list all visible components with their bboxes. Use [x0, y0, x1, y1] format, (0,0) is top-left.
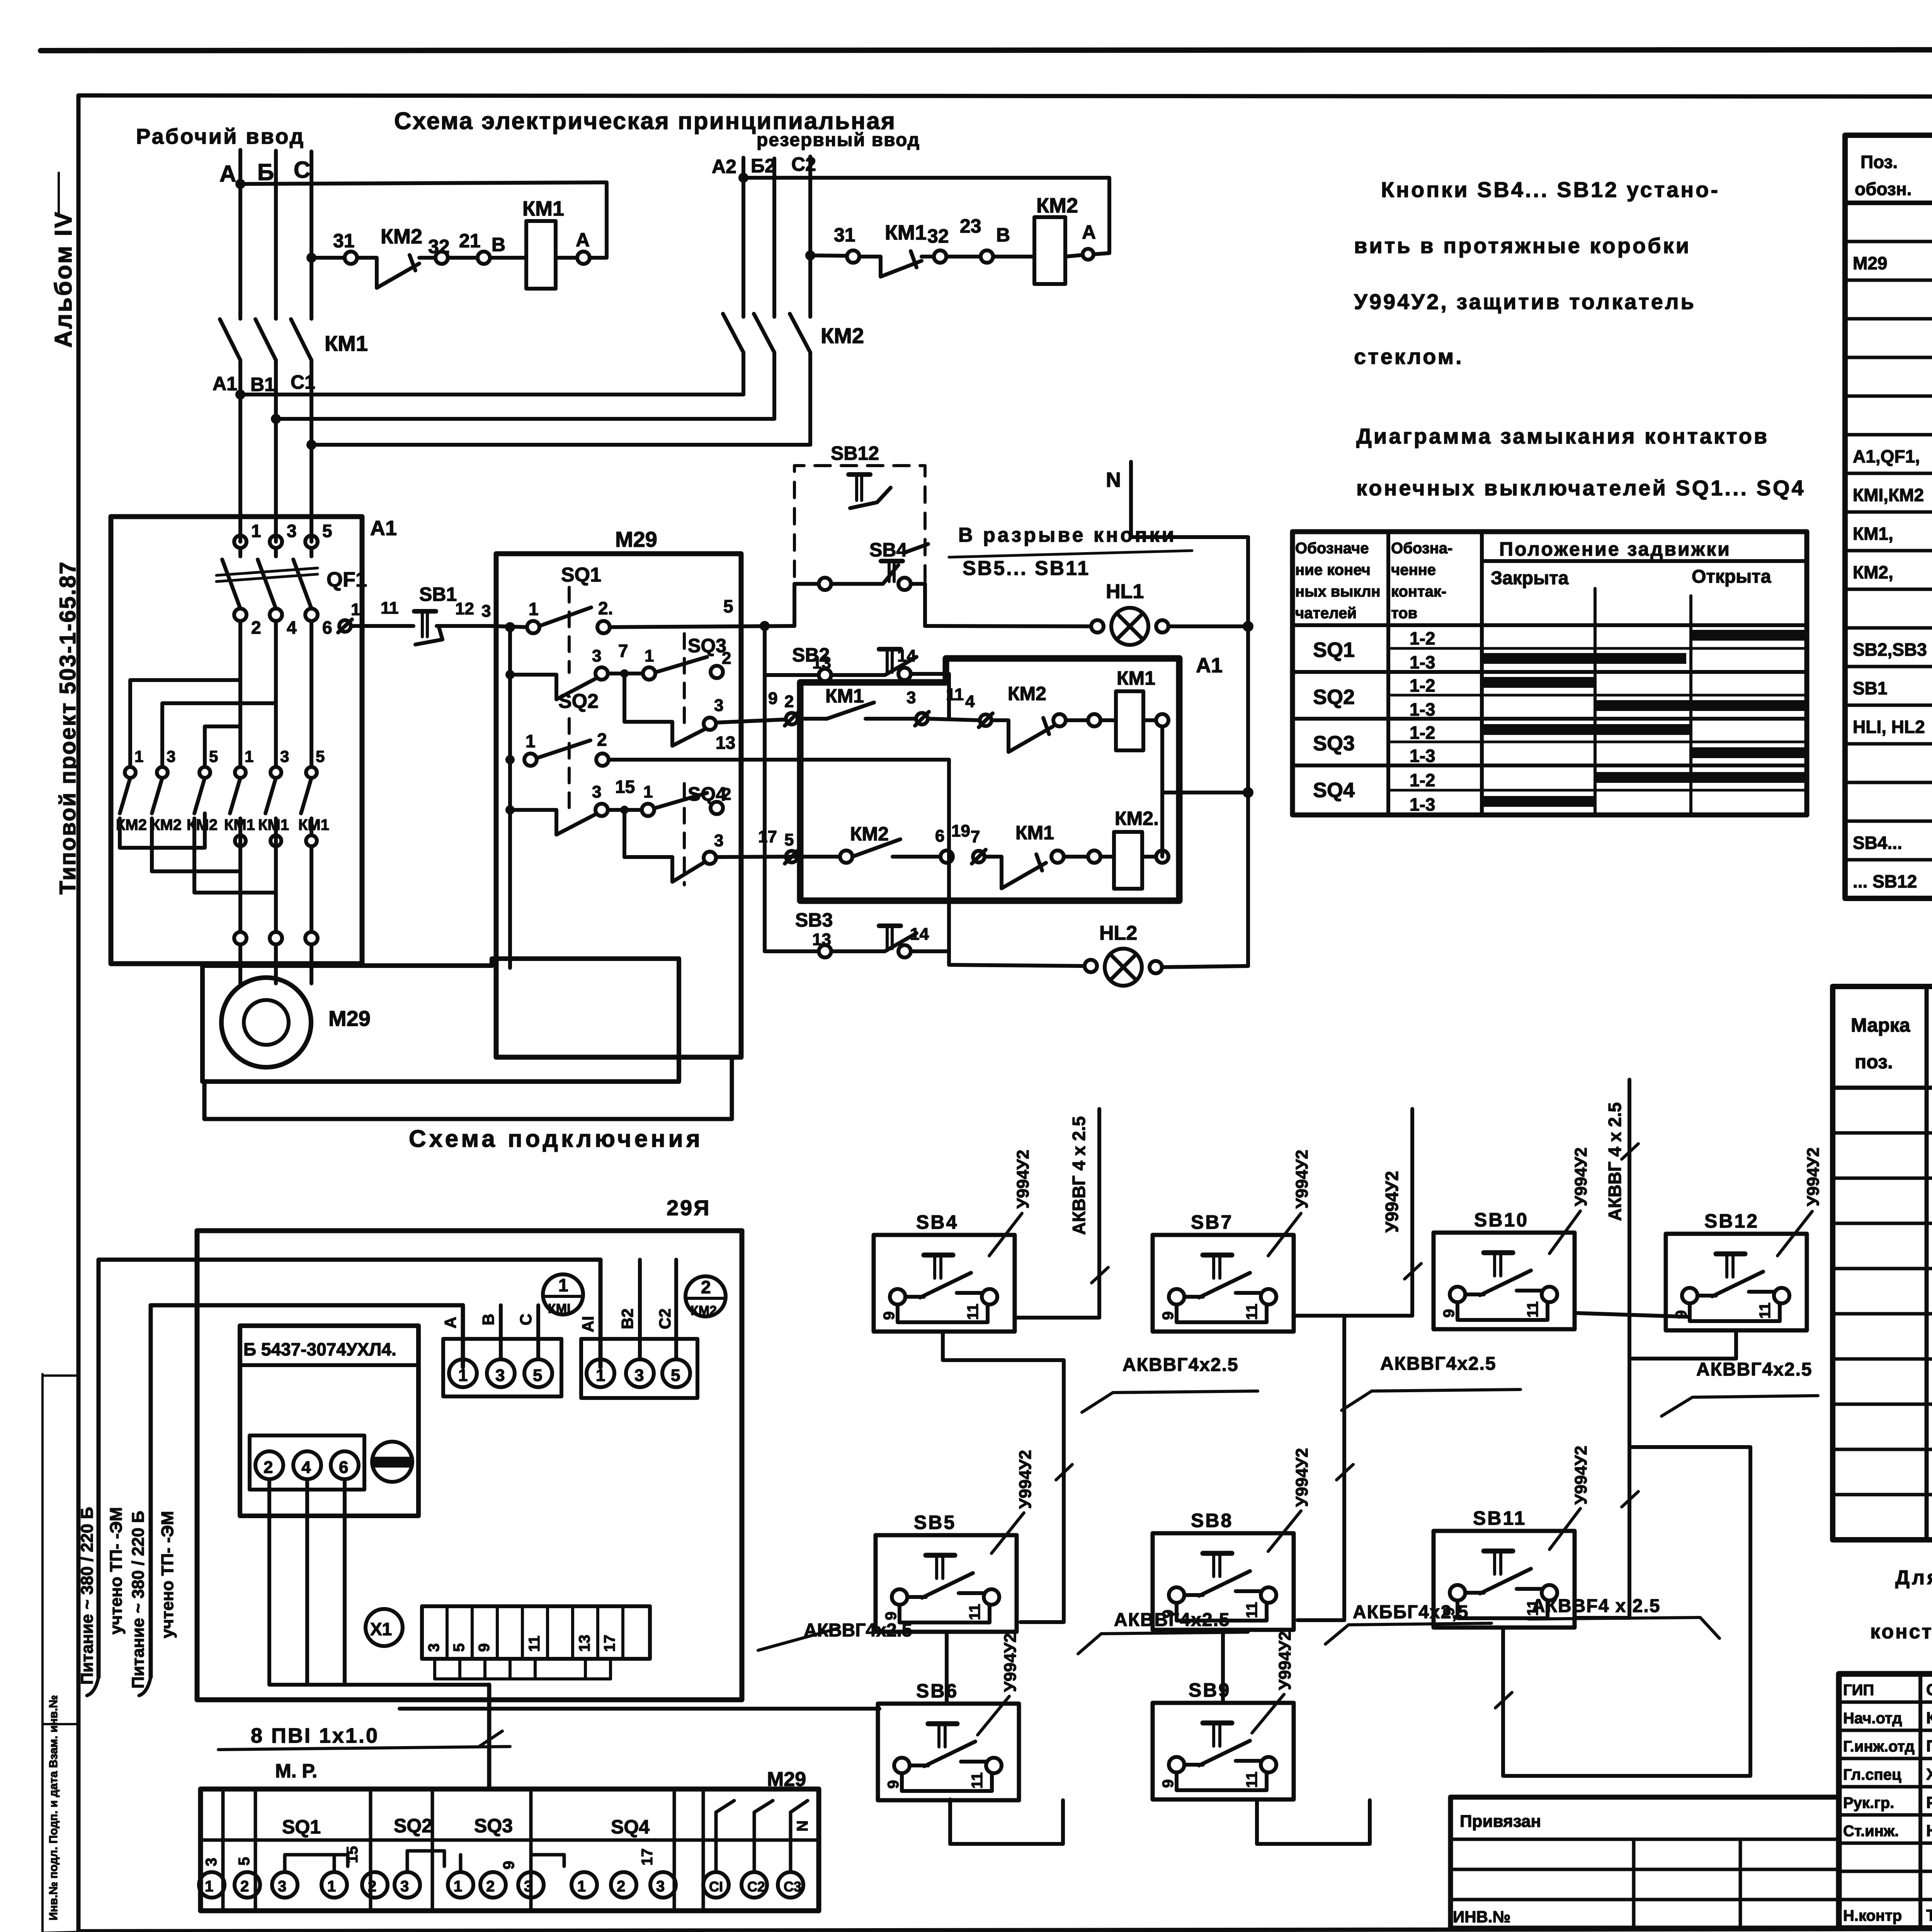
svg-text:3: 3	[481, 602, 491, 621]
title block outline	[1839, 1674, 1932, 1928]
svg-text:Типовой проект 503-1-65.87: Типовой проект 503-1-65.87	[55, 561, 80, 895]
svg-text:SB8: SB8	[1191, 1510, 1233, 1531]
svg-text:Ст.инж.: Ст.инж.	[1843, 1823, 1899, 1840]
row 14	[1845, 742, 1932, 746]
closure bar SQ1 1-3	[1484, 653, 1686, 664]
svg-text:2: 2	[264, 1458, 273, 1477]
wire	[448, 256, 478, 260]
svg-text:В: В	[492, 234, 505, 255]
svg-text:У994У2: У994У2	[1382, 1171, 1402, 1233]
svg-text:11: 11	[381, 599, 399, 617]
cable SB11 down	[1503, 1447, 1750, 1776]
svg-text:3: 3	[425, 1643, 442, 1652]
terminal 32 reserve	[934, 250, 946, 263]
cable SB7-SB8	[1298, 1316, 1344, 1620]
svg-text:Привязан: Привязан	[1460, 1812, 1541, 1831]
svg-text:Инв.№ подл. Подп. и дата В: Инв.№ подл. Подп. и дата Взам. инв.№	[47, 1695, 60, 1920]
svg-text:стеклом.: стеклом.	[1354, 344, 1464, 369]
contactor KM2 main contacts	[723, 314, 743, 352]
svg-text:Марка: Марка	[1851, 1014, 1911, 1036]
mrow 7	[1833, 1403, 1932, 1406]
svg-text:14: 14	[897, 646, 916, 665]
terminal block ABC	[443, 1339, 561, 1396]
row 4	[1845, 356, 1932, 359]
svg-text:Г.инж.отд: Г.инж.отд	[1843, 1738, 1915, 1755]
svg-text:У994У2: У994У2	[1276, 1631, 1294, 1690]
svg-text:1: 1	[454, 1878, 462, 1895]
button box SB8	[1153, 1533, 1294, 1630]
svg-text:8 ПВI 1х1.0: 8 ПВI 1х1.0	[251, 1724, 379, 1747]
svg-text:С2: С2	[656, 1308, 674, 1329]
svg-text:21: 21	[459, 230, 481, 252]
wire KM1 coil loop top	[240, 182, 607, 258]
svg-text:М29: М29	[328, 1006, 371, 1031]
closure bar SQ3 1-2	[1484, 724, 1691, 735]
dashed guide SQ4	[683, 784, 686, 885]
svg-text:КМ1: КМ1	[1015, 822, 1054, 844]
svg-text:1-2: 1-2	[1410, 628, 1435, 648]
svg-text:N: N	[794, 1820, 811, 1832]
row 6	[1845, 433, 1932, 437]
mrow 4	[1833, 1267, 1932, 1270]
svg-text:32: 32	[428, 236, 450, 257]
svg-text:SB7: SB7	[1191, 1211, 1233, 1233]
svg-text:11: 11	[946, 685, 964, 704]
cable SB10 riser	[1575, 1313, 1690, 1317]
diagram table frame	[1293, 532, 1807, 815]
svg-text:4: 4	[287, 617, 297, 638]
mrow 6	[1833, 1357, 1932, 1361]
terminal 4	[270, 609, 282, 621]
svg-text:3: 3	[524, 1878, 532, 1895]
svg-text:1: 1	[645, 646, 654, 665]
link loops between reserve and work contacts	[130, 680, 240, 767]
mrow 3	[1833, 1222, 1932, 1225]
svg-text:2: 2	[722, 649, 731, 668]
svg-text:КМ2: КМ2	[821, 323, 864, 348]
KIP circle	[372, 1442, 412, 1482]
svg-text:2: 2	[722, 785, 731, 804]
svg-text:С3: С3	[784, 1879, 801, 1895]
svg-text:3: 3	[592, 782, 601, 801]
button box SB10	[1434, 1233, 1575, 1329]
svg-text:6: 6	[322, 617, 332, 638]
closure bar SQ1 1-2	[1691, 630, 1804, 641]
cable into SB6	[400, 1707, 879, 1711]
button box SB11	[1434, 1531, 1575, 1628]
KM2 circle	[685, 1276, 726, 1316]
svg-text:резервный ввод: резервный ввод	[757, 130, 920, 150]
svg-text:А1: А1	[1196, 654, 1223, 677]
svg-text:3: 3	[280, 747, 289, 765]
svg-text:Положение задвижки: Положение задвижки	[1499, 538, 1731, 560]
svg-text:... SВ12: ... SВ12	[1853, 871, 1917, 891]
svg-text:9: 9	[476, 1643, 493, 1652]
wires from 246 down	[269, 1479, 489, 1685]
svg-text:SB12: SB12	[1704, 1210, 1759, 1232]
junction vertical	[760, 621, 770, 631]
box A1 thick outline	[800, 658, 1179, 901]
svg-text:У994У2: У994У2	[1571, 1446, 1590, 1505]
cabinet 29YA box	[197, 1231, 742, 1700]
row 9	[1845, 549, 1932, 553]
svg-text:У994У2: У994У2	[1293, 1448, 1311, 1507]
cable SB4-SB5	[943, 1332, 1064, 1622]
svg-text:2: 2	[617, 1878, 625, 1895]
svg-text:2: 2	[701, 1277, 711, 1297]
terminal 1 on A1 edge	[339, 620, 351, 632]
cable SB10-SB11	[1577, 1312, 1629, 1618]
svg-text:1: 1	[351, 600, 360, 619]
svg-text:3: 3	[287, 521, 297, 541]
svg-text:АКВВГ4х2.5: АКВВГ4х2.5	[1696, 1359, 1813, 1380]
svg-text:М29: М29	[1853, 253, 1887, 273]
rung KM1 coil	[786, 713, 798, 724]
svg-text:5: 5	[236, 1857, 253, 1866]
lower terminals	[235, 835, 246, 846]
node A	[235, 179, 245, 189]
svg-text:КМ1: КМ1	[298, 816, 329, 833]
dashed guide SQ3	[683, 634, 686, 732]
svg-text:АКВВГ 4 х 2.5: АКВВГ 4 х 2.5	[1069, 1116, 1089, 1235]
terminal A	[577, 252, 590, 264]
box M29 limit switches	[496, 554, 741, 1057]
dashed guide SQ2	[568, 719, 571, 811]
svg-text:Закрыта: Закрыта	[1491, 568, 1569, 588]
svg-text:Родионов: Родионов	[1926, 1793, 1932, 1811]
terminal 31 reserve	[847, 250, 859, 263]
row 17	[1845, 858, 1932, 862]
node B1	[271, 414, 281, 424]
svg-text:23: 23	[960, 215, 981, 237]
dashed guide SQ1	[568, 587, 571, 672]
button box SB4	[874, 1235, 1015, 1332]
svg-text:SB10: SB10	[1474, 1209, 1529, 1231]
cable SB12 link	[1629, 1332, 1736, 1359]
svg-text:2: 2	[251, 617, 261, 638]
svg-text:13: 13	[716, 733, 735, 753]
terminal 6	[305, 609, 318, 621]
svg-text:Обозна-: Обозна-	[1391, 540, 1452, 557]
wire phase C	[310, 151, 313, 319]
button box SB5	[876, 1535, 1017, 1632]
svg-text:6: 6	[935, 827, 944, 845]
svg-text:32: 32	[927, 225, 949, 247]
button box SB6	[878, 1704, 1019, 1800]
motor terminal box M29	[201, 1789, 819, 1911]
svg-text:13: 13	[576, 1635, 593, 1652]
contact KM1 NC in KM2 chain	[859, 257, 922, 277]
svg-text:Б 5437-3074УХЛ4.: Б 5437-3074УХЛ4.	[243, 1339, 396, 1359]
terminal 32	[435, 252, 448, 264]
svg-text:А1: А1	[213, 373, 237, 395]
mrow 9	[1833, 1493, 1932, 1497]
svg-text:С2: С2	[747, 1879, 765, 1895]
svg-text:9: 9	[500, 1861, 517, 1869]
position dividers in chart	[1594, 588, 1597, 815]
svg-text:В1: В1	[250, 374, 275, 395]
contact SQ1 1-3	[510, 675, 595, 699]
loop under SB9	[1257, 1799, 1370, 1844]
svg-text:N: N	[1106, 468, 1121, 492]
svg-text:SВ4...: SВ4...	[1853, 833, 1902, 853]
svg-text:1: 1	[529, 599, 539, 619]
svg-text:КМ2: КМ2	[850, 823, 889, 845]
svg-text:SB5... SB11: SB5... SB11	[963, 557, 1090, 580]
svg-text:КМ1: КМ1	[325, 331, 368, 355]
svg-text:А: А	[1082, 221, 1096, 243]
terminal block A1B2C2	[581, 1339, 697, 1398]
wire phase B	[274, 151, 278, 319]
svg-text:С1: С1	[291, 371, 315, 393]
svg-text:Диаграмма замыкания контакто: Диаграмма замыкания контактов	[1356, 424, 1769, 448]
svg-text:3: 3	[203, 1858, 220, 1866]
svg-text:Салинский: Салинский	[1926, 1680, 1932, 1699]
svg-text:Гл.спец: Гл.спец	[1843, 1766, 1901, 1783]
svg-text:17: 17	[758, 827, 777, 846]
svg-text:КМ2,: КМ2,	[1853, 562, 1893, 582]
wire to SB1	[351, 624, 413, 628]
svg-text:SB12: SB12	[831, 442, 879, 464]
branch to SQ1 1-3	[508, 627, 512, 968]
svg-text:1: 1	[245, 747, 253, 765]
contact SQ1 1-2	[527, 621, 539, 633]
NC contact KM1	[985, 857, 1046, 888]
coil KM2 in A1	[1114, 832, 1142, 889]
cable SB7 riser	[1294, 1314, 1412, 1318]
svg-text:1: 1	[558, 1275, 568, 1295]
svg-text:SB1: SB1	[419, 583, 457, 605]
svg-text:АКВВГ4х2.5: АКВВГ4х2.5	[804, 1620, 912, 1641]
row 1	[1845, 240, 1932, 243]
svg-text:ИНВ.№: ИНВ.№	[1453, 1908, 1510, 1926]
main rung to lamp HL1	[925, 626, 1091, 626]
svg-text:КМ1: КМ1	[258, 816, 289, 833]
svg-text:Поз.: Поз.	[1861, 152, 1898, 172]
svg-text:У994У2: У994У2	[1001, 1633, 1020, 1692]
node A1	[235, 389, 245, 400]
reserve phase C2	[808, 156, 812, 317]
svg-text:SQ2: SQ2	[1313, 685, 1355, 709]
cable SB5-SB6	[945, 1632, 949, 1704]
svg-text:SВ1: SВ1	[1853, 678, 1887, 698]
svg-text:3: 3	[495, 1366, 505, 1385]
svg-text:КМ1: КМ1	[885, 221, 927, 244]
row 8	[1845, 510, 1932, 514]
svg-text:КМ1: КМ1	[1117, 667, 1155, 689]
svg-text:Рук.гр.: Рук.гр.	[1843, 1794, 1894, 1811]
motor enclosure	[202, 959, 679, 1082]
svg-text:3: 3	[634, 1366, 644, 1385]
svg-text:5: 5	[451, 1643, 468, 1652]
reserve phase B2	[772, 158, 776, 317]
svg-text:1: 1	[577, 1878, 586, 1895]
bus A1-A2	[240, 393, 743, 396]
terminal B reserve	[981, 250, 993, 263]
row 2	[1845, 279, 1932, 282]
svg-text:КМ2: КМ2	[381, 225, 422, 248]
svg-text:Пайкин: Пайкин	[1926, 1737, 1932, 1755]
svg-text:SQ1: SQ1	[1313, 638, 1355, 662]
svg-text:7: 7	[618, 641, 628, 661]
cable SB8-SB9	[1221, 1630, 1225, 1703]
svg-text:SB3: SB3	[795, 909, 833, 931]
svg-text:А: А	[219, 161, 236, 187]
closure bar SQ4 1-3	[1484, 796, 1595, 807]
terminal 21 / B	[478, 252, 490, 264]
svg-text:КМІ,КМ2: КМІ,КМ2	[1853, 485, 1924, 505]
svg-text:6: 6	[339, 1458, 348, 1477]
loop under SB6	[950, 1799, 1063, 1844]
svg-text:7: 7	[971, 827, 980, 846]
closure bar SQ3 1-3	[1691, 747, 1804, 758]
block A1 outline	[111, 517, 362, 964]
svg-text:АКВВF4 х 2.5: АКВВF4 х 2.5	[1532, 1596, 1660, 1616]
svg-text:3: 3	[906, 688, 916, 707]
button box SB12	[1666, 1234, 1807, 1330]
terminal A reserve	[1083, 249, 1094, 260]
svg-text:SB5: SB5	[914, 1512, 956, 1533]
svg-text:SВ2,SВ3: SВ2,SВ3	[1853, 639, 1927, 660]
svg-text:АКВВГ4х2.5: АКВВГ4х2.5	[1122, 1355, 1239, 1375]
button box SB7	[1153, 1235, 1294, 1332]
parts table frame	[1845, 135, 1932, 898]
svg-text:1: 1	[251, 521, 261, 541]
mrow 8	[1833, 1448, 1932, 1451]
row 16	[1845, 820, 1932, 823]
terminal 2	[234, 609, 247, 621]
svg-text:КМ2: КМ2	[690, 1303, 717, 1318]
node A2	[738, 173, 748, 183]
svg-text:SQ2: SQ2	[558, 690, 599, 713]
svg-text:1: 1	[134, 747, 143, 765]
svg-text:Открыта: Открыта	[1692, 566, 1771, 587]
svg-text:11: 11	[526, 1636, 543, 1652]
dashed enclosure SB4 SB12	[794, 466, 925, 603]
coil KM1 in A1	[1116, 691, 1143, 750]
cable SB4 riser	[1015, 1316, 1099, 1320]
svg-text:НL2: НL2	[1099, 922, 1137, 944]
svg-text:А1,QF1,: А1,QF1,	[1853, 446, 1920, 466]
control unit B5437	[240, 1326, 418, 1516]
svg-text:Назарова: Назарова	[1926, 1821, 1932, 1840]
terminal 31	[345, 252, 357, 264]
svg-text:1: 1	[596, 1366, 605, 1385]
svg-text:5: 5	[533, 1366, 542, 1385]
wire phase A lower	[238, 360, 242, 542]
node C2 chain tap	[306, 253, 316, 263]
svg-text:3: 3	[278, 1878, 286, 1895]
svg-text:SQ4: SQ4	[1313, 779, 1355, 802]
svg-text:М29: М29	[767, 1768, 806, 1791]
svg-text:ченне: ченне	[1391, 561, 1436, 578]
svg-text:3: 3	[656, 1878, 665, 1895]
node	[505, 622, 515, 632]
svg-text:1-2: 1-2	[1410, 675, 1435, 696]
svg-text:12: 12	[455, 599, 474, 618]
SQ3 1-3 branch	[622, 673, 626, 722]
NC contact KM2	[992, 720, 1053, 752]
svg-text:С2: С2	[791, 153, 816, 175]
svg-text:3: 3	[714, 696, 723, 715]
svg-text:С: С	[294, 157, 310, 183]
contact diagonals	[120, 778, 130, 813]
svg-text:М29: М29	[615, 527, 657, 551]
wire KM1 coil chain	[311, 256, 345, 260]
svg-text:НL1: НL1	[1106, 580, 1144, 603]
svg-text:Толмачева: Толмачева	[1926, 1906, 1932, 1924]
svg-text:КМ2: КМ2	[187, 816, 218, 833]
note line	[905, 544, 928, 553]
svg-text:Альбом IV: Альбом IV	[50, 211, 77, 348]
svg-text:АКВВГ 4 х 2.5: АКВВГ 4 х 2.5	[1605, 1102, 1625, 1221]
svg-text:SQ1: SQ1	[561, 564, 601, 586]
node C2	[805, 250, 815, 260]
filing margin	[41, 1374, 44, 1932]
svg-text:1: 1	[643, 782, 653, 801]
mrow 2	[1833, 1177, 1932, 1180]
svg-text:4: 4	[965, 692, 975, 711]
svg-text:поз.: поз.	[1855, 1051, 1893, 1073]
svg-text:2: 2	[597, 730, 607, 750]
outgoing terminals	[234, 932, 247, 944]
svg-text:13: 13	[812, 653, 831, 672]
svg-text:2: 2	[240, 1878, 249, 1895]
svg-text:1: 1	[526, 731, 536, 751]
svg-text:Калганов: Калганов	[1926, 1709, 1932, 1727]
strip stubs	[433, 1659, 436, 1679]
svg-text:1-3: 1-3	[1410, 746, 1435, 766]
top edge line	[41, 49, 1932, 51]
row 3	[1845, 317, 1932, 321]
svg-text:ние конеч: ние конеч	[1295, 561, 1371, 578]
svg-text:2: 2	[368, 1878, 376, 1895]
svg-text:Х1: Х1	[370, 1619, 392, 1639]
SQ4 1-3 branch	[622, 810, 626, 857]
svg-text:SQ4: SQ4	[611, 1816, 650, 1838]
svg-text:В: В	[479, 1314, 497, 1325]
row 11	[1845, 626, 1932, 630]
svg-text:15: 15	[615, 777, 635, 797]
wire SQ common return	[204, 1057, 732, 1119]
mrow 1	[1833, 1131, 1932, 1135]
svg-text:1: 1	[458, 1366, 468, 1385]
svg-text:SQ1: SQ1	[282, 1816, 321, 1838]
svg-text:КМ1,: КМ1,	[1853, 524, 1893, 544]
svg-text:А: А	[441, 1317, 459, 1328]
attach table	[1451, 1797, 1839, 1928]
svg-text:У994У2: У994У2	[1571, 1147, 1590, 1206]
wire N	[1131, 462, 1248, 966]
bus C1-C2	[311, 443, 810, 447]
svg-text:SQ3: SQ3	[688, 635, 726, 656]
row dividers	[1293, 623, 1807, 627]
svg-text:31: 31	[834, 224, 855, 246]
svg-text:АКВВГ4х2.5: АКВВГ4х2.5	[1114, 1610, 1230, 1630]
row 15	[1845, 781, 1932, 784]
KM1 circle	[543, 1274, 583, 1315]
svg-text:SB11: SB11	[1473, 1507, 1526, 1529]
wire SB4 box drops	[793, 584, 796, 626]
svg-text:КМ2: КМ2	[1008, 683, 1046, 704]
lamp HL1	[1111, 608, 1148, 645]
KM1 KM2 change-over contact bank terminals	[125, 767, 136, 778]
button box SB9	[1153, 1703, 1294, 1799]
closure bar SQ2 1-3	[1595, 700, 1804, 711]
svg-text:3: 3	[592, 646, 601, 665]
svg-text:2.: 2.	[598, 598, 613, 618]
wire HL2 loop	[741, 760, 1085, 966]
